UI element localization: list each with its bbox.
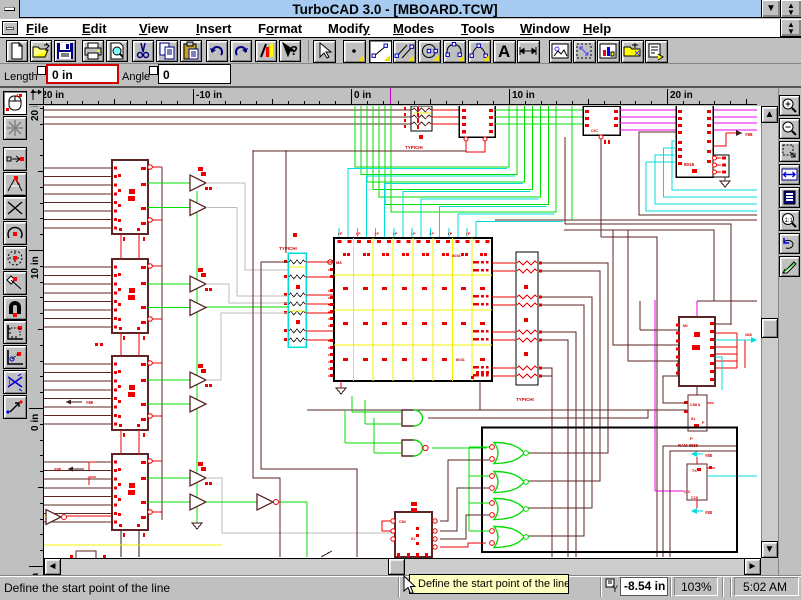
svg-text:8031: 8031 bbox=[452, 253, 462, 258]
svg-text:CIC: CIC bbox=[684, 490, 691, 494]
svg-text:#88: #88 bbox=[86, 400, 94, 405]
svg-text:8031: 8031 bbox=[456, 357, 466, 362]
svg-text:I P: I P bbox=[338, 232, 343, 236]
svg-text:Y: Y bbox=[612, 584, 618, 594]
svg-text:IC: IC bbox=[462, 130, 466, 135]
svg-text:C88 8: C88 8 bbox=[690, 403, 700, 407]
svg-text:P: P bbox=[690, 436, 693, 441]
svg-text:I P: I P bbox=[466, 232, 471, 236]
svg-text:#88: #88 bbox=[705, 453, 713, 458]
svg-text:M8: M8 bbox=[336, 260, 342, 265]
svg-text:I P: I P bbox=[430, 232, 435, 236]
svg-text:?: ? bbox=[290, 43, 298, 58]
svg-text:81: 81 bbox=[691, 417, 695, 421]
svg-text:A: A bbox=[498, 42, 510, 61]
svg-text:I P: I P bbox=[375, 232, 380, 236]
svg-text:I P: I P bbox=[356, 232, 361, 236]
svg-text:81: 81 bbox=[411, 537, 415, 541]
svg-text:TYPICHI: TYPICHI bbox=[279, 246, 297, 251]
svg-text:TYPICHI: TYPICHI bbox=[405, 145, 423, 150]
svg-text:#88: #88 bbox=[745, 332, 752, 337]
svg-text:#88: #88 bbox=[745, 132, 753, 137]
svg-text:I P: I P bbox=[411, 232, 416, 236]
svg-text:CIC: CIC bbox=[591, 128, 598, 133]
svg-text:C81: C81 bbox=[399, 520, 406, 524]
svg-text:7X: 7X bbox=[692, 468, 697, 473]
svg-text:TYPICHI: TYPICHI bbox=[516, 397, 534, 402]
svg-text:8018: 8018 bbox=[684, 162, 695, 167]
svg-text:M1: M1 bbox=[683, 324, 688, 328]
svg-text:I P: I P bbox=[448, 232, 453, 236]
svg-text:C18: C18 bbox=[691, 496, 698, 500]
svg-text:#88: #88 bbox=[705, 510, 713, 515]
svg-text:#88: #88 bbox=[54, 467, 62, 472]
svg-text:I P: I P bbox=[393, 232, 398, 236]
